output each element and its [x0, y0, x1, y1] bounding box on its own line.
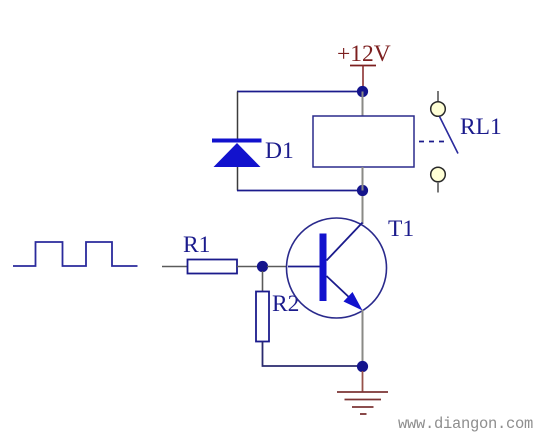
- svg-text:T1: T1: [388, 216, 414, 242]
- svg-text:R1: R1: [183, 232, 210, 258]
- svg-text:+12V: +12V: [337, 41, 391, 67]
- svg-text:RL1: RL1: [460, 114, 502, 140]
- svg-text:D1: D1: [265, 138, 294, 164]
- svg-text:www.diangon.com: www.diangon.com: [398, 415, 533, 433]
